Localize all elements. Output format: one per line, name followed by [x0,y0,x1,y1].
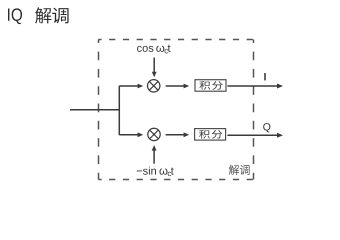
dashed box: demodulator boundary, top edge [99,39,254,41]
integrator U2 box 积分 (lower) [195,129,226,141]
label: cos omega_c t (carrier for I path) [137,45,170,54]
label: 解调 (demodulation) [229,165,250,175]
wire: input line [70,109,119,111]
wire: carrier arrow up into M2 [152,145,157,164]
node label I [264,73,266,80]
wire: M2 to integrator U2 [166,132,190,137]
wire: output I [227,84,283,89]
label: -sin omega_c t (carrier for Q path) [137,167,174,177]
dashed box: right edge [253,40,255,180]
wire: lower branch into multiplier M2 [119,132,143,137]
wire: branch vertical [118,86,120,135]
title: IQ 解调 (IQ demodulation) [8,7,69,24]
node label Q [263,123,270,132]
dashed box: bottom edge [99,179,254,181]
wire: M1 to integrator U1 [166,84,190,89]
wire: upper branch into multiplier M1 [119,84,143,89]
wire: output Q [227,133,283,138]
dashed box: left edge [98,40,100,180]
wire: carrier arrow down into M1 [152,58,157,78]
integrator U1 box 积分 (upper) [195,80,226,92]
multiplier M2 (lower mixer, circle with X) [148,128,160,140]
multiplier M1 (upper mixer, circle with X) [148,80,160,92]
